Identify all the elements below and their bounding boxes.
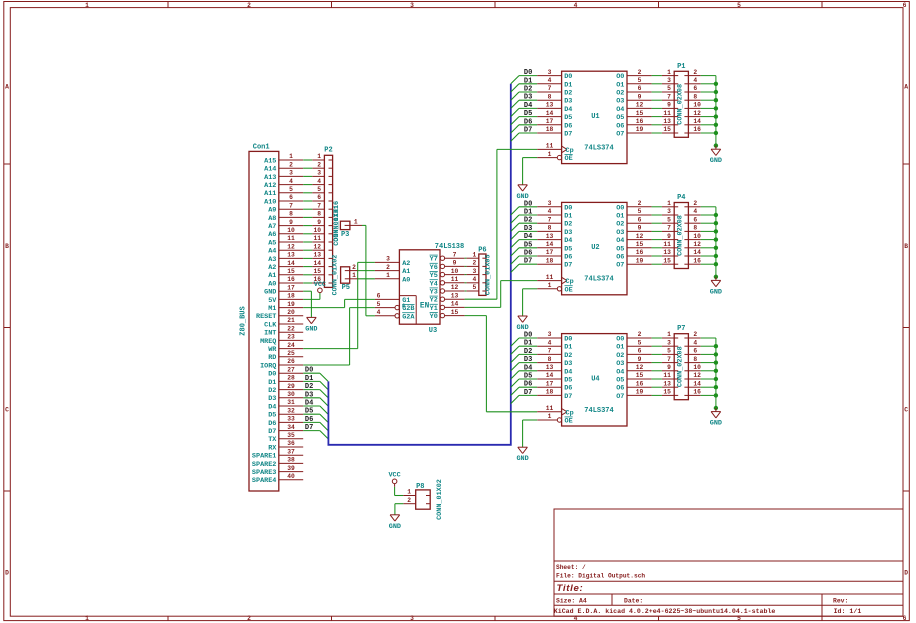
connector P5 CONN_01X02 xyxy=(332,255,358,296)
wire D7 to U2 xyxy=(519,263,537,265)
bus entry D4 (U2) xyxy=(511,240,519,248)
net label D1 (U4) xyxy=(524,340,532,348)
svg-text:1: 1 xyxy=(548,282,552,289)
svg-text:MREQ: MREQ xyxy=(260,338,276,346)
wire IORQ to U3 G2B xyxy=(303,308,375,365)
pin 3 A2 xyxy=(375,256,410,268)
svg-text:13: 13 xyxy=(313,252,321,259)
svg-text:P8: P8 xyxy=(416,483,424,491)
svg-text:CONN_02X08: CONN_02X08 xyxy=(677,84,685,125)
wire D3 from Con1 xyxy=(303,397,320,399)
svg-text:D4: D4 xyxy=(305,400,313,408)
svg-text:U2: U2 xyxy=(591,244,599,252)
pin 3 D0 xyxy=(537,200,572,212)
svg-text:RX: RX xyxy=(268,444,277,452)
wire D6 from Con1 xyxy=(303,421,320,423)
pin 11 Cp xyxy=(537,405,573,417)
svg-text:11: 11 xyxy=(663,110,671,117)
svg-text:39: 39 xyxy=(287,465,295,472)
wire VCC to P8.1 xyxy=(395,487,404,496)
svg-text:3: 3 xyxy=(548,200,552,207)
ground GND (P4) xyxy=(710,277,722,297)
svg-text:GND: GND xyxy=(710,288,722,296)
bus entry D3 (U2) xyxy=(511,231,519,239)
svg-text:9: 9 xyxy=(667,102,671,109)
pin 11 Cp xyxy=(537,274,573,286)
svg-text:A2: A2 xyxy=(268,264,276,272)
svg-text:13: 13 xyxy=(546,102,554,109)
net label D5 (U4) xyxy=(524,373,532,381)
svg-text:10: 10 xyxy=(451,268,459,275)
svg-text:14: 14 xyxy=(693,118,701,125)
svg-text:2: 2 xyxy=(247,615,251,622)
svg-text:D1: D1 xyxy=(524,77,532,85)
svg-text:14: 14 xyxy=(546,241,554,248)
svg-text:12: 12 xyxy=(693,241,701,248)
svg-text:6: 6 xyxy=(638,348,642,355)
svg-text:6: 6 xyxy=(693,216,697,223)
svg-text:9: 9 xyxy=(638,356,642,363)
wire D5 to U1 xyxy=(519,116,537,118)
svg-text:25: 25 xyxy=(287,350,295,357)
pin 9 O3 xyxy=(616,225,651,237)
svg-text:D4: D4 xyxy=(564,106,572,114)
pin 9 O3 xyxy=(616,356,651,368)
wire 5V pin18 xyxy=(303,293,320,300)
svg-text:21: 21 xyxy=(287,317,295,324)
svg-text:74LS374: 74LS374 xyxy=(584,144,613,152)
svg-text:VCC: VCC xyxy=(314,281,326,289)
svg-text:9: 9 xyxy=(638,93,642,100)
pin 15 O5 xyxy=(616,372,651,384)
bus entry D0 (U1) xyxy=(511,76,519,84)
pin 1 OE xyxy=(537,413,573,425)
svg-text:D0: D0 xyxy=(564,73,572,81)
pin 14 Y1 xyxy=(430,301,465,313)
bus entry D0 (U2) xyxy=(511,207,519,215)
wire Y1 to U2 Cp xyxy=(465,281,538,308)
title block xyxy=(554,509,903,616)
bus entry D2 (U2) xyxy=(511,223,519,231)
svg-text:1: 1 xyxy=(352,272,356,279)
svg-text:1: 1 xyxy=(85,2,89,9)
svg-text:1: 1 xyxy=(548,413,552,420)
pin 7 D2 xyxy=(537,216,572,228)
wire D6 to U2 xyxy=(519,255,537,257)
bus entry D5 (U1) xyxy=(511,117,519,125)
wires U3 Y7-Y3 to P6 xyxy=(465,258,467,291)
pin 8 D3 xyxy=(537,356,572,368)
svg-text:D: D xyxy=(5,570,9,577)
svg-text:3: 3 xyxy=(548,69,552,76)
svg-text:D1: D1 xyxy=(305,375,313,383)
svg-text:5V: 5V xyxy=(268,297,277,305)
pin 18 D7 xyxy=(537,126,572,138)
svg-text:GND: GND xyxy=(710,157,722,165)
connector P2 CONN_01X16 xyxy=(312,147,341,288)
svg-text:Y2: Y2 xyxy=(430,297,438,305)
svg-text:34: 34 xyxy=(287,424,295,431)
wire D3 to U2 xyxy=(519,230,537,232)
net label D6 (Con1) xyxy=(305,416,313,424)
svg-text:D3: D3 xyxy=(524,225,532,233)
wire D3 to U4 xyxy=(519,362,537,364)
svg-text:C: C xyxy=(5,406,9,413)
wires U4 outputs to P7 xyxy=(652,338,662,395)
bus entry D4 (left) xyxy=(320,406,328,414)
svg-text:P4: P4 xyxy=(677,194,685,202)
net label D3 (U1) xyxy=(524,94,532,102)
bus entry D1 (left) xyxy=(320,381,328,389)
svg-text:KiCad E.D.A. kicad 4.0.2+e4-6: KiCad E.D.A. kicad 4.0.2+e4-6225~38~ubun… xyxy=(554,608,776,615)
net label D7 (Con1) xyxy=(305,424,313,432)
svg-text:4: 4 xyxy=(548,77,552,84)
pin 14 D5 xyxy=(537,241,572,253)
net label D0 (U4) xyxy=(524,332,532,340)
pin 9 O3 xyxy=(616,93,651,105)
svg-text:3: 3 xyxy=(289,170,293,177)
svg-text:2: 2 xyxy=(693,200,697,207)
decoder U3 74LS138 xyxy=(375,243,465,335)
svg-text:D5: D5 xyxy=(524,110,532,118)
wire D2 from Con1 xyxy=(303,389,320,391)
svg-text:2: 2 xyxy=(386,264,390,271)
svg-text:O6: O6 xyxy=(616,254,624,262)
svg-text:1: 1 xyxy=(386,272,390,279)
svg-text:D3: D3 xyxy=(564,229,572,237)
ground GND (P8) xyxy=(389,515,401,531)
net label D6 (U4) xyxy=(524,381,532,389)
register U1 74LS374 xyxy=(537,69,651,164)
svg-text:2: 2 xyxy=(247,2,251,9)
svg-text:D3: D3 xyxy=(524,94,532,102)
svg-text:GND: GND xyxy=(516,455,528,463)
svg-text:O0: O0 xyxy=(616,336,624,344)
svg-text:OE: OE xyxy=(565,155,573,163)
svg-text:Y4: Y4 xyxy=(430,280,438,288)
pin 8 D3 xyxy=(537,93,572,105)
svg-text:A13: A13 xyxy=(264,174,276,182)
wire D6 to U1 xyxy=(519,124,537,126)
svg-text:A7: A7 xyxy=(268,223,276,231)
svg-text:15: 15 xyxy=(313,268,321,275)
wire D1 from Con1 xyxy=(303,380,320,382)
svg-text:7: 7 xyxy=(289,202,293,209)
svg-text:O2: O2 xyxy=(616,352,624,360)
pin 16 O6 xyxy=(616,249,651,261)
pin 14 D5 xyxy=(537,110,572,122)
svg-text:A: A xyxy=(904,83,908,90)
bus entry D7 (U4) xyxy=(511,395,519,403)
svg-text:D4: D4 xyxy=(564,368,572,376)
svg-text:Date:: Date: xyxy=(624,598,643,605)
wire D5 to U4 xyxy=(519,378,537,380)
svg-text:14: 14 xyxy=(287,260,295,267)
svg-text:5: 5 xyxy=(667,348,671,355)
svg-text:15: 15 xyxy=(636,110,644,117)
svg-text:31: 31 xyxy=(287,399,295,406)
svg-text:D0: D0 xyxy=(564,336,572,344)
svg-text:2: 2 xyxy=(352,264,356,271)
svg-text:11: 11 xyxy=(663,372,671,379)
pin 3 D0 xyxy=(537,331,572,343)
svg-text:7: 7 xyxy=(548,216,552,223)
svg-text:18: 18 xyxy=(287,293,295,300)
svg-text:5: 5 xyxy=(289,186,293,193)
svg-text:RD: RD xyxy=(268,354,276,362)
svg-text:A8: A8 xyxy=(268,215,276,223)
svg-text:17: 17 xyxy=(546,249,554,256)
wire D1 to U2 xyxy=(519,214,537,216)
svg-text:D1: D1 xyxy=(524,209,532,217)
svg-text:4: 4 xyxy=(693,208,697,215)
svg-text:8: 8 xyxy=(317,211,321,218)
svg-text:4: 4 xyxy=(377,309,381,316)
pin 19 O7 xyxy=(616,389,651,401)
svg-text:8: 8 xyxy=(693,93,697,100)
wire P4 ground rail xyxy=(701,207,716,277)
svg-text:1: 1 xyxy=(85,615,89,622)
wire P5.2 to U3 A1 xyxy=(358,270,375,272)
svg-text:16: 16 xyxy=(693,126,701,133)
net label D4 (U2) xyxy=(524,233,532,241)
svg-text:Cp: Cp xyxy=(566,278,574,286)
svg-text:5: 5 xyxy=(638,77,642,84)
svg-text:D3: D3 xyxy=(305,391,313,399)
connector P8 CONN_01X02 xyxy=(403,479,444,520)
pin 7 Y7 xyxy=(430,251,465,263)
svg-text:D1: D1 xyxy=(268,379,276,387)
pin 13 D4 xyxy=(537,364,572,376)
svg-text:10: 10 xyxy=(693,102,701,109)
svg-text:B: B xyxy=(5,243,9,250)
svg-text:17: 17 xyxy=(546,380,554,387)
svg-text:RESET: RESET xyxy=(256,313,276,321)
net label D3 (U2) xyxy=(524,225,532,233)
svg-text:12: 12 xyxy=(636,233,644,240)
bus entry D5 (left) xyxy=(320,414,328,422)
pin 19 O7 xyxy=(616,126,651,138)
svg-text:C: C xyxy=(904,406,908,413)
net label D2 (U1) xyxy=(524,86,532,94)
svg-text:GND: GND xyxy=(305,325,317,333)
wire D0 to U2 xyxy=(519,206,537,208)
svg-text:36: 36 xyxy=(287,440,295,447)
svg-text:8: 8 xyxy=(548,93,552,100)
svg-text:A9: A9 xyxy=(268,207,276,215)
svg-text:O5: O5 xyxy=(616,245,624,253)
net label D7 (U4) xyxy=(524,389,532,397)
svg-text:9: 9 xyxy=(667,364,671,371)
svg-text:2: 2 xyxy=(407,497,411,504)
svg-text:INT: INT xyxy=(264,330,276,338)
svg-text:14: 14 xyxy=(693,249,701,256)
svg-text:11: 11 xyxy=(546,274,554,281)
net label D1 (U1) xyxy=(524,77,532,85)
net label D0 (Con1) xyxy=(305,367,313,375)
svg-text:35: 35 xyxy=(287,432,295,439)
svg-text:12: 12 xyxy=(693,372,701,379)
svg-text:2: 2 xyxy=(638,69,642,76)
svg-text:18: 18 xyxy=(546,126,554,133)
svg-text:12: 12 xyxy=(693,110,701,117)
wire P1 ground rail xyxy=(701,76,716,146)
svg-text:P7: P7 xyxy=(677,325,685,333)
svg-text:11: 11 xyxy=(451,276,459,283)
svg-text:D6: D6 xyxy=(268,420,276,428)
bus entry D7 (U2) xyxy=(511,264,519,272)
wire D7 from Con1 xyxy=(303,430,320,432)
svg-text:D5: D5 xyxy=(305,408,313,416)
bus entry D5 (U4) xyxy=(511,379,519,387)
svg-text:Cp: Cp xyxy=(566,147,574,155)
pin 16 O6 xyxy=(616,380,651,392)
wire U4 OE to ground xyxy=(523,420,538,447)
svg-text:O0: O0 xyxy=(616,73,624,81)
bus entry D6 (U1) xyxy=(511,125,519,133)
svg-text:11: 11 xyxy=(287,235,295,242)
svg-text:O2: O2 xyxy=(616,221,624,229)
svg-text:O1: O1 xyxy=(616,344,624,352)
svg-text:23: 23 xyxy=(287,334,295,341)
svg-text:A4: A4 xyxy=(268,248,276,256)
wire P7 ground rail xyxy=(701,338,716,408)
ground GND (U1 OE) xyxy=(516,185,528,201)
svg-text:17: 17 xyxy=(546,118,554,125)
svg-text:D1: D1 xyxy=(524,340,532,348)
svg-text:13: 13 xyxy=(663,249,671,256)
pin 15 O5 xyxy=(616,241,651,253)
svg-text:Title:: Title: xyxy=(557,583,584,594)
svg-text:D1: D1 xyxy=(564,213,572,221)
svg-text:16: 16 xyxy=(636,249,644,256)
svg-text:9: 9 xyxy=(453,260,457,267)
svg-text:1: 1 xyxy=(473,251,477,258)
svg-text:D6: D6 xyxy=(564,122,572,130)
svg-text:D7: D7 xyxy=(564,393,572,401)
svg-text:GND: GND xyxy=(389,523,401,531)
svg-text:A11: A11 xyxy=(264,190,276,198)
pin 16 O6 xyxy=(616,118,651,130)
svg-text:2: 2 xyxy=(638,331,642,338)
wire D7 to U4 xyxy=(519,394,537,396)
svg-text:O4: O4 xyxy=(616,368,624,376)
svg-text:EN: EN xyxy=(420,303,430,311)
svg-text:74LS374: 74LS374 xyxy=(584,276,613,284)
svg-text:37: 37 xyxy=(287,448,295,455)
svg-text:33: 33 xyxy=(287,416,295,423)
svg-text:D6: D6 xyxy=(524,118,532,126)
svg-text:SPARE4: SPARE4 xyxy=(252,477,276,485)
svg-text:D: D xyxy=(904,570,908,577)
bus entry D3 (left) xyxy=(320,398,328,406)
svg-text:U1: U1 xyxy=(591,113,599,121)
pin 14 D5 xyxy=(537,372,572,384)
svg-text:13: 13 xyxy=(546,233,554,240)
svg-text:6: 6 xyxy=(693,348,697,355)
bus entry D1 (U2) xyxy=(511,215,519,223)
bus entry D6 (U2) xyxy=(511,256,519,264)
svg-text:D7: D7 xyxy=(524,258,532,266)
junctions P7 ground rail xyxy=(714,344,718,410)
svg-text:A6: A6 xyxy=(268,231,276,239)
wire D3 to U1 xyxy=(519,99,537,101)
svg-text:12: 12 xyxy=(287,243,295,250)
svg-text:14: 14 xyxy=(546,372,554,379)
ground GND (P1) xyxy=(710,146,722,166)
svg-text:OE: OE xyxy=(565,418,573,426)
net label D5 (U2) xyxy=(524,241,532,249)
svg-text:5: 5 xyxy=(638,208,642,215)
register U4 74LS374 xyxy=(537,331,651,426)
pin 5 O1 xyxy=(616,77,651,89)
svg-text:10: 10 xyxy=(693,233,701,240)
svg-text:D5: D5 xyxy=(524,241,532,249)
svg-text:12: 12 xyxy=(636,364,644,371)
wire GND pin17 xyxy=(303,291,311,317)
svg-text:12: 12 xyxy=(451,284,459,291)
svg-text:4: 4 xyxy=(693,339,697,346)
pin 6 O2 xyxy=(616,85,651,97)
svg-text:Id: 1/1: Id: 1/1 xyxy=(834,608,862,615)
svg-text:4: 4 xyxy=(317,178,321,185)
svg-text:Y6: Y6 xyxy=(430,264,438,272)
connector P3 CONN_01X01 xyxy=(333,205,362,246)
svg-text:13: 13 xyxy=(663,380,671,387)
ground GND (U4 OE) xyxy=(516,447,528,463)
svg-text:9: 9 xyxy=(667,233,671,240)
svg-text:5: 5 xyxy=(317,186,321,193)
connector Con1 Z80_BUS xyxy=(239,144,303,491)
svg-text:6: 6 xyxy=(289,194,293,201)
svg-text:CONN_01X02: CONN_01X02 xyxy=(436,479,444,520)
svg-text:15: 15 xyxy=(663,257,671,264)
svg-text:1: 1 xyxy=(317,153,321,160)
pin 2 O0 xyxy=(616,331,651,343)
svg-text:O3: O3 xyxy=(616,98,624,106)
bus entry D4 (U4) xyxy=(511,371,519,379)
svg-text:D7: D7 xyxy=(564,131,572,139)
svg-text:CONN_02X08: CONN_02X08 xyxy=(677,346,685,387)
svg-text:D7: D7 xyxy=(268,428,276,436)
svg-text:15: 15 xyxy=(636,372,644,379)
svg-text:1: 1 xyxy=(407,489,411,496)
svg-text:10: 10 xyxy=(287,227,295,234)
svg-text:TX: TX xyxy=(268,436,277,444)
svg-text:A5: A5 xyxy=(268,239,276,247)
svg-text:2: 2 xyxy=(473,260,477,267)
net label D6 (U2) xyxy=(524,250,532,258)
svg-text:GND: GND xyxy=(264,289,276,297)
pin 11 Y4 xyxy=(430,276,465,288)
wire P8.2 to ground xyxy=(395,504,403,515)
svg-text:A12: A12 xyxy=(264,182,276,190)
wire D6 to U4 xyxy=(519,386,537,388)
svg-text:GND: GND xyxy=(710,420,722,428)
svg-text:O4: O4 xyxy=(616,237,624,245)
junctions P4 ground rail xyxy=(714,213,718,279)
svg-text:27: 27 xyxy=(287,366,295,373)
pin 4 D1 xyxy=(537,77,572,89)
svg-text:15: 15 xyxy=(663,389,671,396)
wire D4 to U1 xyxy=(519,107,537,109)
svg-text:1: 1 xyxy=(667,331,671,338)
pin 13 D4 xyxy=(537,102,572,114)
svg-text:19: 19 xyxy=(636,257,644,264)
svg-text:D3: D3 xyxy=(524,356,532,364)
svg-text:3: 3 xyxy=(317,170,321,177)
svg-text:5: 5 xyxy=(737,2,741,9)
